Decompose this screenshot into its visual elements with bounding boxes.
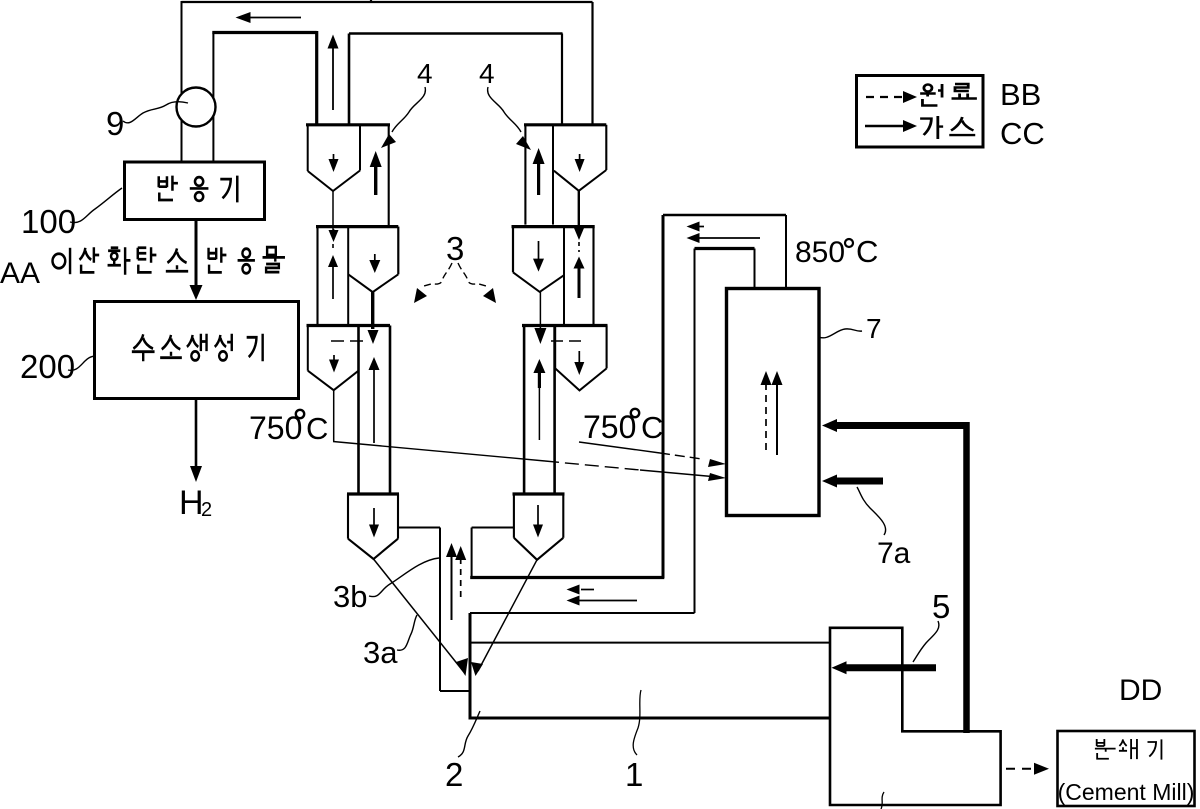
svg-text:DD: DD: [1119, 674, 1162, 707]
svg-text:4: 4: [417, 58, 433, 89]
svg-text:C: C: [856, 234, 878, 269]
svg-text:4: 4: [479, 58, 495, 89]
svg-text:750: 750: [583, 409, 636, 445]
svg-text:850: 850: [795, 236, 845, 269]
svg-text:2: 2: [445, 756, 463, 793]
svg-text:2: 2: [201, 499, 212, 521]
svg-text:H: H: [179, 484, 204, 522]
svg-text:3b: 3b: [333, 579, 367, 614]
svg-text:3: 3: [446, 230, 464, 267]
svg-text:100: 100: [21, 203, 76, 240]
svg-text:(Cement Mill): (Cement Mill): [1058, 779, 1195, 805]
svg-text:BB: BB: [1000, 77, 1041, 112]
svg-text:3a: 3a: [363, 635, 398, 670]
svg-text:200: 200: [20, 348, 75, 385]
svg-text:AA: AA: [0, 257, 40, 290]
svg-text:1: 1: [625, 756, 643, 793]
svg-text:750: 750: [249, 410, 302, 446]
svg-text:5: 5: [932, 588, 950, 625]
svg-text:7: 7: [866, 313, 882, 344]
svg-text:C: C: [641, 410, 663, 445]
svg-text:7a: 7a: [877, 537, 911, 570]
svg-text:C: C: [306, 411, 328, 446]
svg-text:9: 9: [106, 105, 124, 142]
svg-text:CC: CC: [1000, 116, 1045, 151]
